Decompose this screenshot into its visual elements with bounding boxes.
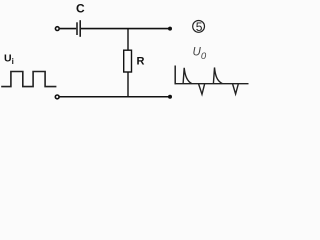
wire: top wire down to resistor — [127, 29, 129, 51]
svg-text:5: 5 — [196, 20, 203, 34]
node dot (bottom right wire end) — [168, 95, 172, 99]
capacitor C (left plate) — [76, 22, 78, 35]
svg-text:C: C — [76, 2, 85, 16]
output vertical axis — [174, 66, 176, 85]
wire: capacitor to output node — [81, 28, 169, 30]
wire: resistor down to bottom wire — [127, 72, 129, 97]
circled 5 — [193, 21, 205, 33]
input terminal (top left open circle) — [55, 27, 59, 31]
output horizontal axis — [175, 83, 249, 85]
node dot (top right wire end) — [168, 27, 172, 31]
svg-text:R: R — [137, 56, 145, 68]
svg-text:U0: U0 — [193, 47, 207, 63]
bottom wire — [60, 96, 169, 98]
resistor R (box) — [124, 50, 132, 72]
capacitor C (right plate) — [79, 20, 81, 37]
input square waveform — [1, 72, 56, 87]
output negative spike 1 — [199, 84, 205, 94]
wire: input terminal to capacitor — [60, 28, 77, 30]
output positive spike 1 — [183, 68, 192, 84]
output negative spike 2 — [233, 84, 239, 94]
bottom terminal (open circle) — [55, 95, 59, 99]
svg-text:Ui: Ui — [4, 53, 14, 67]
output positive spike 2 — [213, 68, 222, 84]
